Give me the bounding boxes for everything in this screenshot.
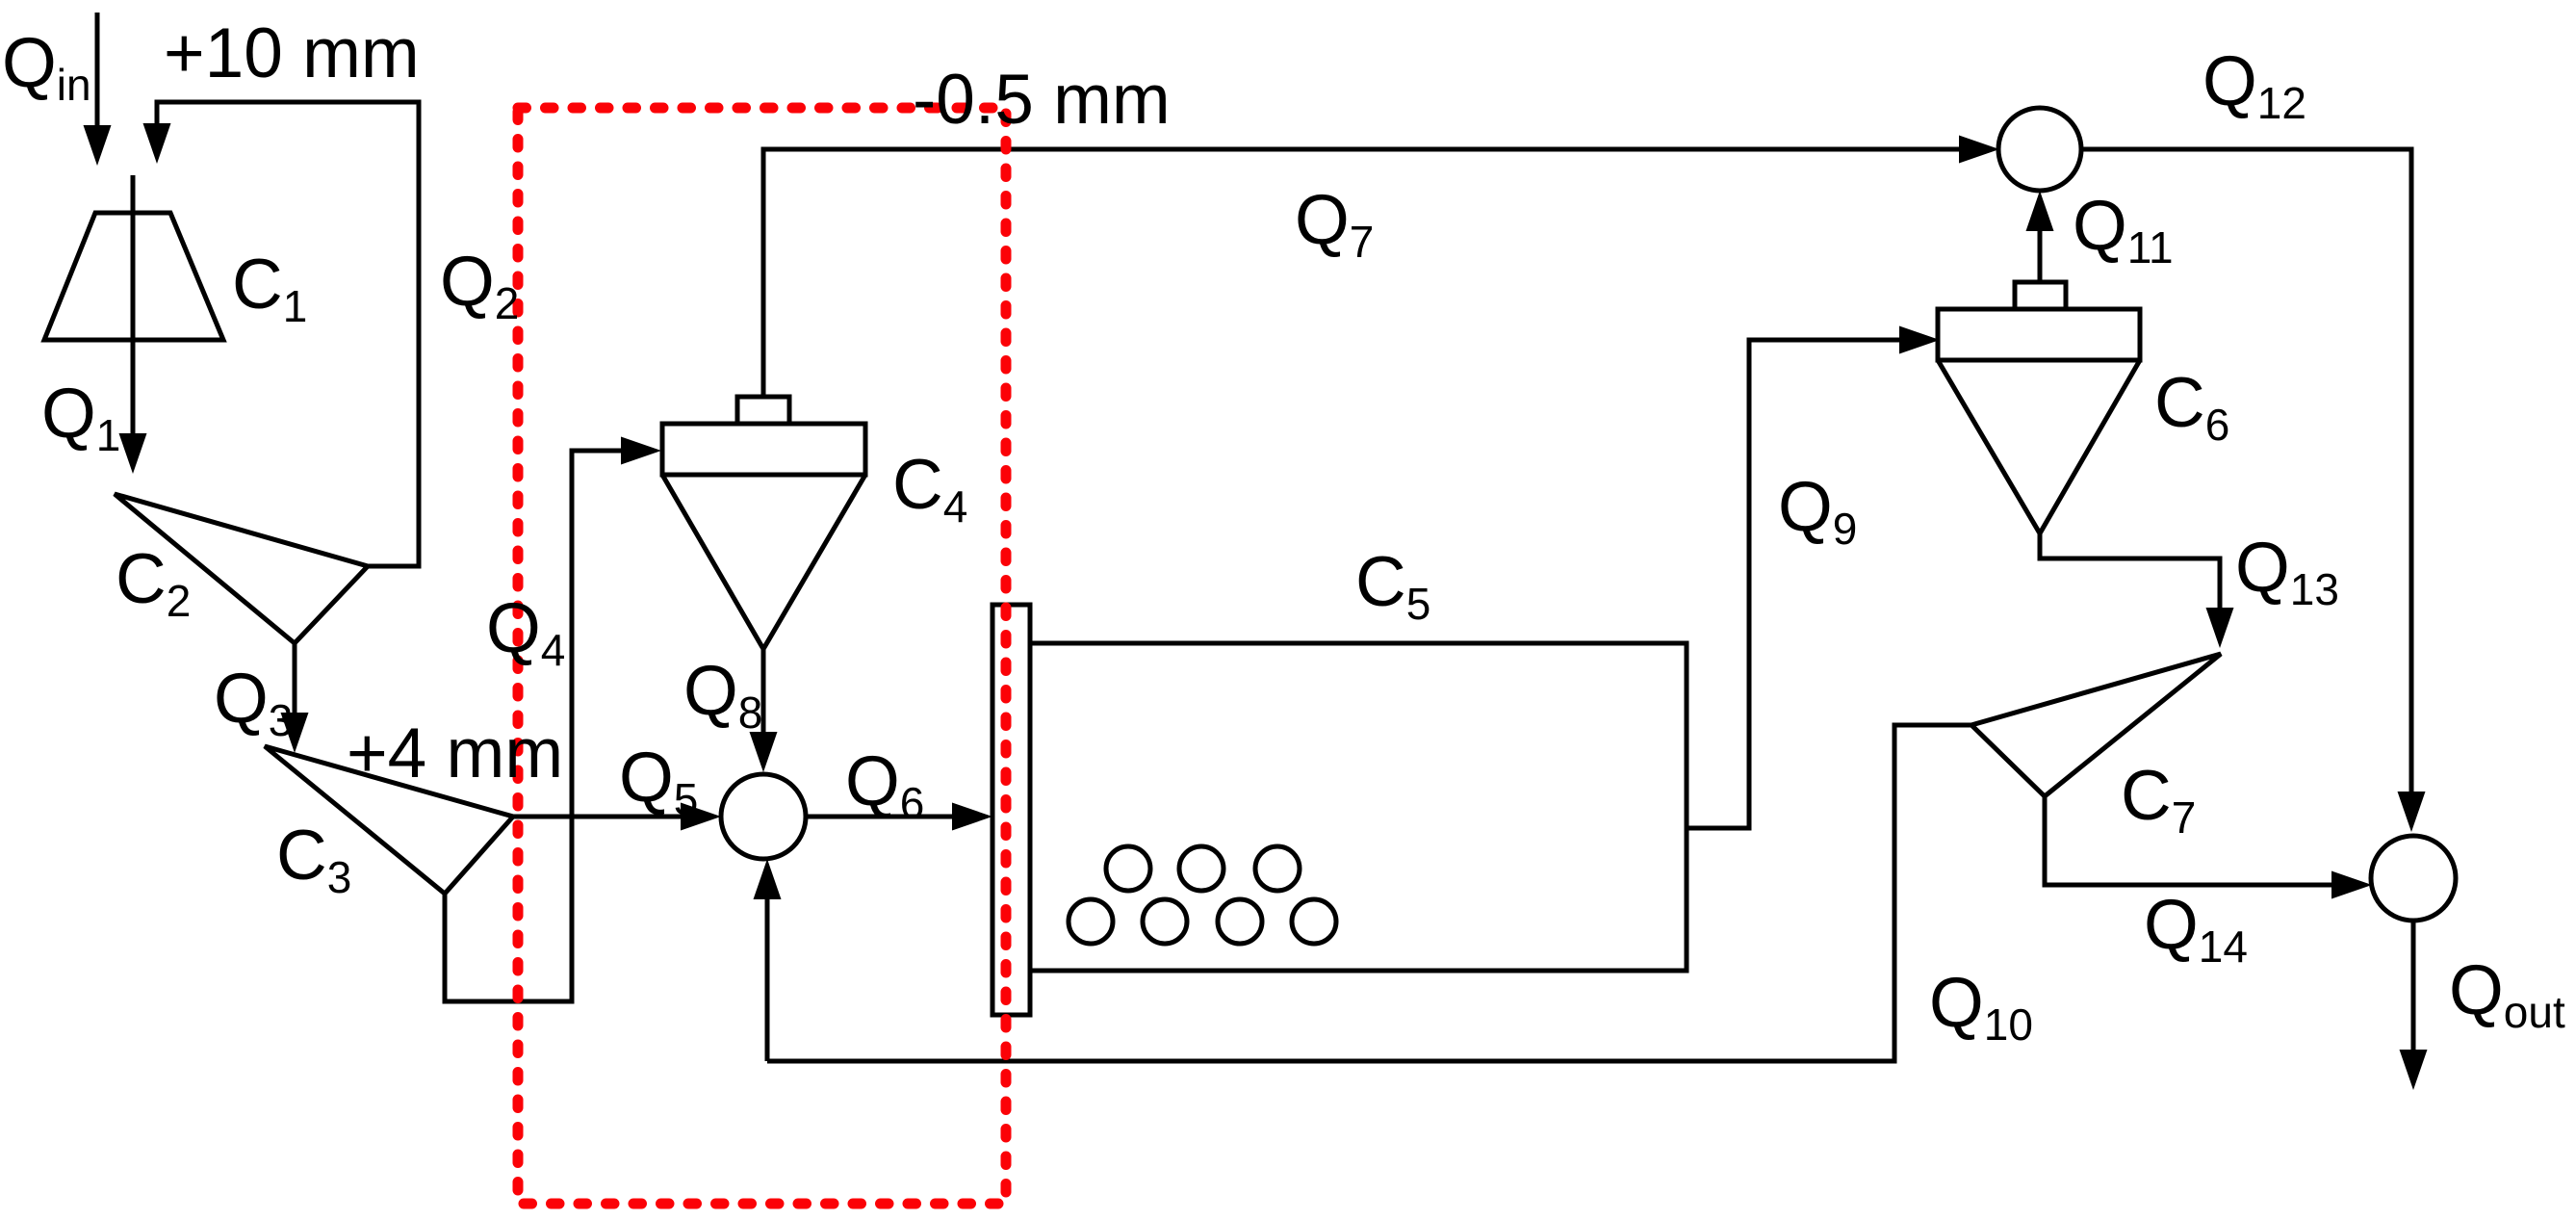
wire Q10 return line [767, 725, 1971, 1061]
arrowhead Q13 into C7 [2206, 608, 2234, 648]
cyclone C4 cone [662, 475, 865, 649]
wire +10mm recycle: C2 oversize up and over to C1 [157, 102, 419, 566]
svg-text:+4 mm: +4 mm [347, 714, 563, 792]
screen C7 [1971, 654, 2221, 796]
mixer M3 [2371, 836, 2456, 921]
wire Q10 riser into mixer M1 [765, 899, 770, 1061]
mill C5 shell [1030, 643, 1687, 971]
arrowhead Q8 into M1 [750, 732, 778, 772]
arrowhead Q7 into M2 [1959, 136, 1999, 164]
svg-text:-0.5 mm: -0.5 mm [913, 61, 1171, 139]
arrowhead Qout [2400, 1050, 2428, 1090]
arrowhead Q11 into M2 [2026, 191, 2054, 231]
mixer M2 [1998, 108, 2081, 191]
wire Q14 C7 underflow to mixer M3 [2045, 796, 2333, 885]
ball 4 [1069, 899, 1113, 944]
wire Q8 C4 underflow to mixer M1 [761, 649, 766, 734]
screen C2 [115, 494, 368, 643]
arrowhead Q1 [119, 433, 147, 474]
svg-text:+10 mm: +10 mm [164, 14, 420, 92]
wire Qin feed arrow [95, 13, 100, 127]
mixer M1 [721, 774, 806, 859]
ball 7 [1292, 899, 1336, 944]
wire Qout [2411, 921, 2416, 1051]
wire Q6 to mill [806, 815, 958, 819]
cyclone C6 vortex finder [2015, 282, 2066, 309]
wire mill discharge / Q9 to C6 [1687, 340, 1901, 828]
cyclone C4 vortex finder [737, 397, 789, 424]
cyclone C4 body [662, 424, 865, 475]
arrowhead Q3 [281, 713, 309, 753]
arrowhead +10mm into C1 [143, 123, 171, 164]
arrowhead Q12 into M3 [2398, 792, 2426, 832]
wire Q4 riser to C4 feed [572, 451, 623, 817]
arrowhead Qin [84, 125, 112, 166]
mill C5 feed plate [992, 605, 1030, 1015]
wire Q13 C6 underflow to C7 [2040, 533, 2220, 610]
wire C1 through-line / Q1 [131, 175, 136, 435]
red dashed boundary box [518, 108, 1006, 1204]
arrowhead Q9 into C6 [1899, 326, 1940, 354]
cyclone C6 body [1938, 309, 2140, 360]
arrowhead Q6 into mill [952, 803, 992, 831]
wire Q3 [293, 643, 297, 714]
screen C3 [265, 746, 513, 894]
wire C4 overflow / Q7 to mixer M2 [763, 149, 1961, 397]
cyclone C6 cone [1938, 360, 2140, 533]
hopper under C3 [445, 818, 572, 1001]
wire Q11 C6 overflow to mixer M2 [2038, 229, 2043, 282]
arrowhead Q14 into M3 [2331, 871, 2372, 899]
wire Q5 [513, 815, 685, 819]
ball 6 [1218, 899, 1262, 944]
ball 3 [1255, 846, 1300, 891]
wire Q12 from mixer M2 down to mixer M3 [2081, 149, 2411, 793]
ball 1 [1106, 846, 1150, 891]
ball 5 [1143, 899, 1187, 944]
arrowhead Q4 into C4 [621, 437, 661, 465]
ball 2 [1179, 846, 1224, 891]
crusher C1 [44, 213, 223, 340]
arrowhead Q10 into M1 bottom [754, 859, 782, 899]
arrowhead Q5 into M1 [681, 803, 721, 831]
